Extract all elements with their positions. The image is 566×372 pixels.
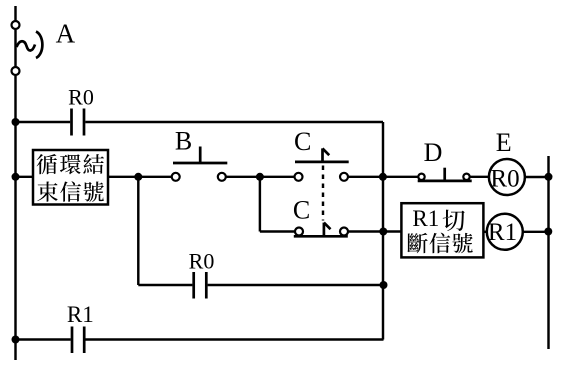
svg-text:B: B [175,127,192,156]
svg-text:C: C [294,127,311,156]
svg-text:R0: R0 [189,249,215,274]
svg-text:R0: R0 [490,165,519,192]
svg-text:E: E [496,128,512,157]
svg-text:R1: R1 [67,302,94,327]
svg-text:R1: R1 [412,206,439,231]
svg-text:R0: R0 [68,85,94,110]
svg-text:C: C [293,195,310,224]
svg-text:A: A [56,19,76,49]
svg-text:D: D [424,138,443,167]
svg-text:R1: R1 [488,219,517,246]
